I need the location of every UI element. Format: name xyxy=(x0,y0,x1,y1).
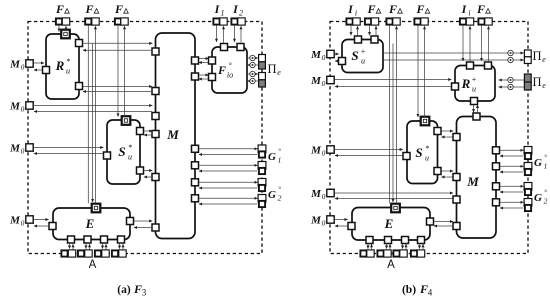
wire M to F-io 2 xyxy=(199,74,209,76)
wire Ii-2 down to R+u xyxy=(462,26,464,62)
svg-text:°: ° xyxy=(278,186,281,194)
connector R+u top 2 xyxy=(485,62,492,69)
wire I1 down to F-io xyxy=(216,26,218,42)
wire R+u to M0-2 xyxy=(335,86,451,88)
connector E top (b) xyxy=(391,204,400,213)
wire M to R*u upper xyxy=(83,49,152,51)
connector E bottom 1 (a) xyxy=(68,236,75,243)
connector F-io left 2 xyxy=(209,74,216,81)
label Pi-e lower (b) xyxy=(532,75,546,90)
label Pi-e upper (b) xyxy=(532,49,546,64)
caption (a) F3 xyxy=(117,282,146,298)
wire R+u up to Ii-2 xyxy=(469,26,471,61)
connector M left 3 (a) xyxy=(152,113,159,120)
connector F-io top 1 xyxy=(221,44,228,51)
wire M to S*u lower (b) xyxy=(441,176,452,178)
svg-text:u: u xyxy=(128,153,132,162)
port A pair 2 (a) xyxy=(78,250,92,257)
Pi-e box upper (a) xyxy=(259,55,266,70)
svg-text:M: M xyxy=(9,143,21,155)
svg-text:E: E xyxy=(384,216,394,231)
svg-text:i: i xyxy=(355,9,357,18)
wire S*u to M lower (a) xyxy=(144,170,153,172)
wire M to M0-2 xyxy=(34,111,152,113)
wire S+u to M0-1 xyxy=(335,60,338,62)
connector S*u top (b) xyxy=(421,117,430,126)
wire M to F-io 1 xyxy=(199,58,209,60)
port M0-1 square (b) xyxy=(327,50,334,57)
svg-text:2: 2 xyxy=(239,9,243,18)
label S+u xyxy=(351,47,365,66)
wire S*u to M0-3 xyxy=(34,153,103,155)
label G2 (a) xyxy=(268,186,282,203)
svg-text:*: * xyxy=(66,57,70,66)
svg-text:°: ° xyxy=(544,189,547,197)
label G1 (a) xyxy=(268,148,281,165)
wire Ii-1 down to S+u xyxy=(350,26,352,36)
connector E bottom 4 (a) xyxy=(118,236,125,243)
connector M right 3 (a) xyxy=(192,145,199,152)
connector M right 1 (a) xyxy=(192,57,199,64)
port I1 pair (a) xyxy=(213,18,227,25)
svg-text:e: e xyxy=(542,55,546,64)
wire M0-4 to E xyxy=(34,219,49,221)
label F-triangle 1 (a) xyxy=(55,2,69,16)
svg-text:M: M xyxy=(466,174,479,189)
svg-text:°: ° xyxy=(278,148,281,156)
connector M right 5 (a) xyxy=(192,179,199,186)
label S*u (b) xyxy=(415,144,429,163)
tweak port F3 pair (a) xyxy=(115,18,128,25)
connector R*u right 1 xyxy=(76,40,83,47)
wire R*u to M lower xyxy=(83,86,153,88)
svg-text:0: 0 xyxy=(21,219,25,228)
svg-text:1: 1 xyxy=(278,156,282,165)
svg-text:M: M xyxy=(310,145,322,157)
svg-text:F: F xyxy=(419,282,428,296)
port A pair 1 (b) xyxy=(360,250,374,257)
port G1 pair 2 (a) xyxy=(258,162,266,175)
label F-triangle 1 (b) xyxy=(366,2,380,16)
tweak port F3 pair (b) xyxy=(414,18,428,25)
svg-text:*: * xyxy=(128,143,132,152)
connector M left 2 (b) xyxy=(453,174,460,181)
svg-text:F: F xyxy=(366,2,375,16)
svg-text:M: M xyxy=(9,215,21,227)
Pi-e box upper (b) xyxy=(524,50,531,64)
svg-text:G: G xyxy=(534,157,542,169)
svg-text:(a): (a) xyxy=(117,284,131,296)
connector S*u left (a) xyxy=(104,152,111,159)
svg-text:A: A xyxy=(387,259,395,271)
connector R*u right 2 xyxy=(76,83,83,90)
connector M right 2 (a) xyxy=(192,73,199,80)
connector S*u left (b) xyxy=(403,153,410,160)
perm call mark 1 (a) xyxy=(250,55,255,60)
wire M0-5 to E (b) xyxy=(335,219,348,221)
wire F3 down to S*u xyxy=(117,26,119,117)
block M (b) xyxy=(457,117,497,239)
svg-text:e: e xyxy=(542,81,546,90)
tweak port F1 pair (a) xyxy=(56,18,70,25)
label F-io xyxy=(217,61,233,80)
connector R+u top 1 xyxy=(467,62,474,69)
wire Pi upper to F-io xyxy=(247,64,258,66)
svg-text:G: G xyxy=(268,189,276,201)
port G2 pair 2 (a) xyxy=(258,195,266,208)
svg-text:A: A xyxy=(89,259,97,271)
svg-text:R: R xyxy=(55,58,65,73)
port M0-1 square (a) xyxy=(26,60,33,67)
port G2 pair 2 (b) xyxy=(524,199,532,212)
svg-text:1: 1 xyxy=(221,9,225,18)
wire G port 4 back to M (b) xyxy=(500,207,523,209)
port G2 pair 1 (a) xyxy=(258,179,266,192)
label F-triangle 3 (b) xyxy=(415,2,429,16)
wire M0-2 to M xyxy=(34,105,153,107)
wire M to S*u upper (a) xyxy=(144,134,152,136)
block E (a) xyxy=(53,208,130,240)
svg-text:0: 0 xyxy=(21,63,25,72)
connector S*u right 2 (b) xyxy=(434,168,441,175)
wire M to E (a) xyxy=(134,227,152,229)
port M0-3 square (b) xyxy=(327,146,334,153)
wires E bottom 1 (b) xyxy=(368,244,372,250)
svg-text:M: M xyxy=(166,127,179,142)
perm call mark 3 (a) xyxy=(250,71,255,76)
svg-text:G: G xyxy=(268,151,276,163)
connector M left 3 (b) xyxy=(453,196,460,203)
port M0-4 square (b) xyxy=(327,189,334,196)
wire R*u to M upper xyxy=(83,42,153,44)
label Ii-2 (b) xyxy=(461,2,471,18)
svg-text:F: F xyxy=(55,2,64,16)
svg-text:2: 2 xyxy=(544,197,548,206)
wire M to S*u lower (a) xyxy=(144,176,152,178)
svg-text:0: 0 xyxy=(322,79,326,88)
wire Pi lower to F-io xyxy=(247,80,258,82)
label M0-4 (a) xyxy=(9,215,25,228)
wire S*u up to F3 xyxy=(124,26,126,116)
port A pair 1 (a) xyxy=(61,250,75,257)
connector M right 4 (b) xyxy=(493,199,500,206)
label R+u xyxy=(461,75,477,94)
wire M to G port 4 (a) xyxy=(199,197,258,199)
label M0-2 (b) xyxy=(310,75,326,88)
label M0-3 (b) xyxy=(310,145,326,158)
wire F1 down to S+u (b) xyxy=(369,26,371,36)
connector M left 6 (a) xyxy=(152,224,159,231)
label M0-5 (b) xyxy=(310,215,326,228)
connector M top (b) xyxy=(473,113,480,120)
svg-text:S: S xyxy=(351,48,358,63)
wire mid column to E top xyxy=(92,44,94,203)
svg-text:°: ° xyxy=(544,154,547,162)
connector E right (a) xyxy=(127,218,134,225)
wire R+u down to M xyxy=(473,105,475,113)
svg-text:F: F xyxy=(388,2,397,16)
connector S+u top 2 xyxy=(371,36,378,43)
port G2 pair 1 (b) xyxy=(524,183,532,196)
wire Pi lower to R+u 2 xyxy=(499,86,525,88)
block S*u (a) xyxy=(107,120,140,184)
tweak port F2 pair (a) xyxy=(85,18,99,25)
svg-text:3: 3 xyxy=(142,288,147,298)
wire mid column to E top (b) xyxy=(392,44,394,203)
block S+u (b) xyxy=(342,40,383,73)
svg-text:F: F xyxy=(217,63,226,77)
connector S*u right 1 (b) xyxy=(434,128,441,135)
connector R*u top xyxy=(61,30,70,39)
wire E to M0-4 xyxy=(34,225,48,227)
Pi-e box lower (a) xyxy=(259,73,266,88)
port G1 pair 1 (a) xyxy=(258,145,266,158)
wire G port 1 back to M (b) xyxy=(500,155,523,157)
wire S*u to M upper (a) xyxy=(144,130,153,132)
wire M to G port 3 (b) xyxy=(500,185,524,187)
label I1 (a) xyxy=(214,2,225,18)
wires E bottom 2 (a) xyxy=(86,244,90,250)
svg-text:F: F xyxy=(476,2,485,16)
connector E right (b) xyxy=(427,218,434,225)
connector M left 5 (a) xyxy=(152,174,159,181)
wire E to M0-5 (b) xyxy=(335,225,347,227)
label F-triangle 3 (a) xyxy=(114,2,128,16)
label S*u (a) xyxy=(118,143,132,162)
wire F-io up to I2 xyxy=(240,26,242,42)
wire G port 3 back to M (b) xyxy=(500,191,523,193)
tweak port F1 pair (b) xyxy=(365,18,379,25)
connector S*u right 1 (a) xyxy=(137,128,144,135)
wire M to S*u upper (b) xyxy=(441,136,452,138)
connector M right 6 (a) xyxy=(192,195,199,202)
tweak port F2 pair (b) xyxy=(386,18,400,25)
wire E top up to F2 (b) xyxy=(396,26,398,203)
wire F-io to Pi upper xyxy=(247,57,258,59)
wire E top up to F2 xyxy=(94,26,96,203)
wire F-io up to I1 xyxy=(223,26,225,42)
port M0-4 square (a) xyxy=(26,216,33,223)
wire F-io to Pi lower xyxy=(247,73,258,75)
port A pair 2 (b) xyxy=(377,250,391,257)
wire G port 1 back to M (a) xyxy=(199,154,257,156)
svg-text:0: 0 xyxy=(322,219,326,228)
perm call mark 4 (a) xyxy=(250,78,255,83)
wire G port 3 back to M (a) xyxy=(199,187,257,189)
port G1 pair 2 (b) xyxy=(524,163,532,176)
wire M0-1 to R*u xyxy=(34,62,45,64)
perm call mark 4 (b) xyxy=(508,84,513,89)
connector E left (b) xyxy=(348,223,355,230)
wire M0-4 to M (b) xyxy=(335,192,453,194)
svg-text:Π: Π xyxy=(532,75,541,89)
svg-text:0: 0 xyxy=(322,149,326,158)
svg-text:G: G xyxy=(534,192,542,204)
label I2 (a) xyxy=(232,2,243,18)
wire F-io to M 2 xyxy=(199,78,208,80)
label G2 (b) xyxy=(534,189,548,206)
label M0-2 (a) xyxy=(9,101,25,114)
connector E bottom 3 (b) xyxy=(402,237,409,244)
svg-text:(b): (b) xyxy=(402,284,416,296)
wire M to G port 1 (a) xyxy=(199,148,258,150)
svg-text:i: i xyxy=(468,9,470,18)
connector M left 2 (a) xyxy=(152,88,159,95)
connector M left 1 (b) xyxy=(453,134,460,141)
connector M left 4 (a) xyxy=(152,131,159,138)
port M0-2 square (a) xyxy=(26,102,33,109)
connector M left 4 (b) xyxy=(453,223,460,230)
label M0-1 (b) xyxy=(310,49,326,62)
perm call mark 3 (b) xyxy=(508,77,513,82)
connector E left (a) xyxy=(49,223,56,230)
svg-text:u: u xyxy=(361,57,365,66)
svg-text:Π: Π xyxy=(267,62,276,76)
wire S*u to M lower (b) xyxy=(441,170,453,172)
wire M to M0-4 (b) xyxy=(335,198,453,200)
port M0-3 square (a) xyxy=(26,144,33,151)
wires E bottom 4 (b) xyxy=(420,244,424,250)
label F-triangle 2 (a) xyxy=(84,2,98,16)
block F-io (a) xyxy=(212,47,247,93)
wire G port 2 back to M (a) xyxy=(199,170,257,172)
svg-text:u: u xyxy=(66,67,70,76)
wire F1 down to R*u xyxy=(58,26,60,32)
svg-text:E: E xyxy=(85,216,95,231)
svg-text:F: F xyxy=(415,2,424,16)
connector M left 1 (a) xyxy=(152,48,159,55)
svg-text:u: u xyxy=(425,154,429,163)
connector F-io top 2 xyxy=(237,44,244,51)
wire S*u to M0-3 (b) xyxy=(335,155,402,157)
port M0-2 square (b) xyxy=(327,76,334,83)
block S*u (b) xyxy=(407,121,438,184)
label Pi-e (a) xyxy=(267,62,281,77)
svg-text:0: 0 xyxy=(21,105,25,114)
svg-text:F: F xyxy=(133,282,142,296)
connector E bottom 1 (b) xyxy=(366,237,373,244)
dashed frame panel (a) xyxy=(28,22,262,254)
wire S+u to Pi upper 2 xyxy=(383,59,524,61)
wire M to G port 1 (b) xyxy=(500,149,524,151)
svg-text:M: M xyxy=(310,75,322,87)
svg-text:0: 0 xyxy=(21,147,25,156)
svg-text:M: M xyxy=(9,59,21,71)
svg-text:*: * xyxy=(425,144,429,153)
port Ii pair 1 (b) xyxy=(346,18,360,25)
connector E bottom 2 (b) xyxy=(385,237,392,244)
label M0-1 (a) xyxy=(9,59,25,72)
wire R+u up to F4 xyxy=(488,26,490,61)
wire M to G port 4 (b) xyxy=(500,201,524,203)
caption (b) F4 xyxy=(402,282,433,298)
port M0-5 square (b) xyxy=(327,216,334,223)
svg-text:R: R xyxy=(461,76,471,91)
connector R+u bottom xyxy=(471,98,478,105)
wires E bottom 3 (b) xyxy=(403,244,407,250)
svg-text:+: + xyxy=(471,75,476,84)
wires E bottom 4 (a) xyxy=(120,244,124,250)
port A pair 4 (b) xyxy=(411,250,425,257)
connector R*u left xyxy=(43,67,50,74)
svg-text:M: M xyxy=(310,49,322,61)
block R*u (a) xyxy=(46,34,79,99)
wire M to G port 2 (b) xyxy=(500,165,524,167)
svg-text:0: 0 xyxy=(322,192,326,201)
port I2 pair (a) xyxy=(231,18,245,25)
svg-text:io: io xyxy=(227,71,233,80)
wire M up to R+u xyxy=(477,105,479,113)
wire S+u up to Ii-1 xyxy=(357,26,359,35)
svg-text:Π: Π xyxy=(532,49,541,63)
connector E bottom 4 (b) xyxy=(418,237,425,244)
label F-triangle 2 (b) xyxy=(388,2,402,16)
tweak port F4 pair (b) xyxy=(478,18,492,25)
svg-text:M: M xyxy=(310,188,322,200)
connector S+u top 1 xyxy=(355,36,362,43)
port A pair 3 (a) xyxy=(95,250,109,257)
wire I2 down to F-io xyxy=(234,26,236,42)
dashed frame panel (b) xyxy=(330,22,528,254)
connector F-io left 1 xyxy=(209,57,216,64)
svg-text:1: 1 xyxy=(544,162,548,171)
wire F-io to M 1 xyxy=(199,62,208,64)
wire F2 down column xyxy=(87,26,89,204)
wire S+u to Pi upper 1 xyxy=(383,52,524,54)
connector E bottom 2 (a) xyxy=(84,236,91,243)
connector R+u left xyxy=(452,83,459,90)
wire F2 down column (b) xyxy=(389,26,391,204)
label G1 (b) xyxy=(534,154,547,171)
wire R*u up to F1 xyxy=(65,26,67,30)
block R+u (b) xyxy=(455,66,495,102)
Pi-e box lower (b) xyxy=(524,74,531,90)
svg-text:F: F xyxy=(114,2,123,16)
svg-text:0: 0 xyxy=(322,53,326,62)
svg-text:u: u xyxy=(472,85,476,94)
wires E bottom 3 (a) xyxy=(103,244,107,250)
label M0-4 (b) xyxy=(310,188,326,201)
wire E to M (b) xyxy=(434,221,453,223)
svg-text:M: M xyxy=(310,215,322,227)
wires E bottom 2 (b) xyxy=(387,244,391,250)
connector M right 1 (b) xyxy=(493,147,500,154)
port G1 pair 1 (b) xyxy=(524,147,532,160)
connector E top (a) xyxy=(92,204,101,213)
label M0-3 (a) xyxy=(9,143,25,156)
svg-text:4: 4 xyxy=(428,288,433,298)
wire M0-3 to S*u xyxy=(34,147,104,149)
svg-text:S: S xyxy=(118,144,125,159)
label Ii-1 (b) xyxy=(347,2,357,18)
wire E to M (a) xyxy=(134,220,153,222)
port A pair 3 (b) xyxy=(393,250,407,257)
label F-triangle 4 (b) xyxy=(476,2,490,16)
wire G port 4 back to M (a) xyxy=(199,203,257,205)
wire S*u to M upper (b) xyxy=(441,130,453,132)
wire G port 2 back to M (b) xyxy=(500,171,523,173)
svg-text:+: + xyxy=(360,47,365,56)
wire S+u up to F1 (b) xyxy=(375,26,377,35)
wire M0-1 to S+u xyxy=(335,53,339,55)
wire M to R*u lower xyxy=(83,91,152,93)
block E (b) xyxy=(352,208,430,241)
connector S+u left xyxy=(339,58,346,65)
connector S*u right 2 (a) xyxy=(137,167,144,174)
port Ii pair 2 (b) xyxy=(460,18,474,25)
label R*u xyxy=(55,57,70,76)
svg-text:M: M xyxy=(9,101,21,113)
